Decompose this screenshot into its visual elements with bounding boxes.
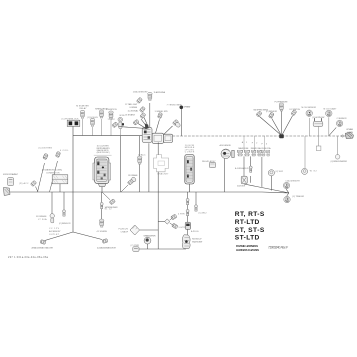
svg-text:12 TAILLIGHT: 12 TAILLIGHT (125, 103, 138, 106)
connector C right diag (329, 118, 347, 136)
hub connector block B3 (164, 134, 173, 142)
svg-text:RELAY: RELAY (80, 107, 88, 110)
connector chain NW (three stacked) (125, 97, 146, 119)
connector M2 (324, 107, 338, 136)
svg-text:C SENSOR: C SENSOR (337, 118, 347, 120)
svg-text:SV BRAKE: SV BRAKE (36, 215, 47, 218)
wire main bus right (dashed harness centerline) (172, 135, 347, 137)
wire stubs bus to fuse row (243, 136, 245, 150)
hub connector block B2 (152, 133, 163, 143)
svg-text:W MAIN: W MAIN (346, 128, 353, 131)
svg-text:CC 12V: CC 12V (49, 228, 60, 230)
bead a (235, 166, 252, 183)
svg-text:(W DIAGNOSTIC LINK): (W DIAGNOSTIC LINK) (42, 168, 62, 171)
svg-text:C ACCESSORY: C ACCESSORY (285, 180, 300, 183)
grey bracket box (154, 155, 170, 176)
svg-text:HARN: HARN (347, 131, 353, 134)
svg-text:(C) TRAILER: (C) TRAILER (292, 195, 304, 198)
svg-text:(C) SENSOR: (C) SENSOR (266, 111, 277, 113)
end blob of bus3 (182, 235, 203, 249)
13 stub above bus2 (121, 174, 138, 192)
svg-text:13 FRAME: 13 FRAME (128, 174, 138, 177)
svg-text:NO/OUI 12V: NO/OUI 12V (192, 238, 202, 240)
svg-text:M STARTER: M STARTER (76, 105, 89, 108)
svg-text:W12V OUTLET: W12V OUTLET (192, 241, 203, 243)
svg-text:RT, RT-S: RT, RT-S (235, 211, 265, 218)
svg-text:(C) SIGNAL: (C) SIGNAL (128, 109, 139, 112)
connector C11 vertical (133, 90, 166, 100)
svg-text:12 ACC: 12 ACC (138, 153, 146, 156)
vertical links (72, 136, 74, 192)
connector C13 (125, 114, 140, 126)
svg-text:ST, ST-S: ST, ST-S (235, 227, 265, 234)
svg-text:A BREAKER: A BREAKER (235, 167, 249, 170)
svg-text:5 WHEEL SPD: 5 WHEEL SPD (155, 111, 168, 113)
connector M oil (302, 107, 317, 136)
svg-text:MAXI FUSE: MAXI FUSE (238, 147, 249, 150)
connector 12V on x139 (138, 153, 146, 164)
connector C-101 (95, 107, 108, 135)
svg-text:297 1 001a-00a-04a-05a-06a: 297 1 001a-00a-04a-05a-06a (8, 256, 49, 259)
svg-text:4 COIL: 4 COIL (60, 150, 69, 152)
splice right small (158, 213, 185, 229)
diode connector X (237, 176, 247, 187)
hub connector block B1 (142, 124, 152, 143)
connector PC top (275, 101, 289, 111)
svg-text:M IGNITION: M IGNITION (106, 109, 117, 111)
svg-text:41 SPARE: 41 SPARE (97, 230, 108, 233)
svg-text:710002/4c Rev. F: 710002/4c Rev. F (268, 246, 289, 250)
x187 chain below bus2 (185, 192, 199, 235)
svg-text:(C) PWR: (C) PWR (131, 245, 140, 247)
CC label block (49, 228, 61, 236)
hub dark connector (279, 134, 284, 138)
x101 chain below bus2 (97, 192, 113, 233)
svg-text:5 HTR: 5 HTR (179, 227, 186, 229)
svg-text:A SADDLEBAG GAUCHE: A SADDLEBAG GAUCHE (32, 246, 54, 249)
svg-text:M FRONT/AVANT: M FRONT/AVANT (3, 173, 19, 176)
svg-text:BRACKET: BRACKET (158, 172, 170, 175)
connector C17 left (108, 118, 119, 128)
fuse group 2 (251, 143, 262, 156)
end connector of harness (342, 128, 354, 138)
svg-text:A SOLENOID: A SOLENOID (220, 144, 232, 147)
svg-text:DC SWITCH: DC SWITCH (290, 109, 301, 111)
svg-text:(C) SPEEDOMETER: (C) SPEEDOMETER (331, 161, 348, 163)
svg-text:A PLUG: A PLUG (191, 230, 199, 233)
svg-text:4 HTR: 4 HTR (178, 213, 185, 215)
svg-text:(C) SADDLEBAG DROIT: (C) SADDLEBAG DROIT (97, 246, 117, 249)
open square terminal below bus (316, 136, 321, 151)
svg-text:RELAY ASSY: RELAY ASSY (202, 160, 216, 163)
connector spark 2-prong (312, 117, 324, 136)
svg-text:CONTR: CONTR (185, 152, 195, 154)
svg-text:13 BRAKE: 13 BRAKE (125, 114, 136, 117)
svg-text:(C) 1357 REG: (C) 1357 REG (39, 148, 53, 150)
node dot antenna (180, 105, 192, 136)
connector C-82 (76, 105, 89, 136)
svg-text:A DIODE: A DIODE (237, 184, 246, 187)
svg-text:(C)SENSOR: (C)SENSOR (59, 223, 71, 225)
connector C-111 (106, 109, 117, 136)
svg-text:PC PRESSURE: PC PRESSURE (275, 101, 289, 103)
connector M4b (266, 111, 277, 118)
svg-text:W SADDLE PWR: W SADDLE PWR (144, 235, 156, 238)
diamond splice left (119, 225, 159, 235)
svg-text:LICENSE: LICENSE (130, 107, 138, 109)
svg-text:12 ACCESSORY: 12 ACCESSORY (133, 90, 149, 93)
terminal strip box (42, 168, 68, 192)
fuse group 3 (262, 143, 272, 156)
svg-text:(MULTIFUNC): (MULTIFUNC) (97, 152, 110, 154)
tensioner stub (102, 192, 118, 209)
svg-text:(C) W12: (C) W12 (275, 171, 283, 173)
svg-text:HARNAIS CHASSIS: HARNAIS CHASSIS (236, 248, 259, 252)
horn component (220, 144, 235, 192)
fuse block F1 (62, 118, 80, 135)
x196 chain (195, 192, 208, 215)
wire fan lines (118, 103, 172, 134)
svg-text:M COOLANT: M COOLANT (324, 107, 338, 110)
small relay mid (202, 160, 216, 168)
svg-text:CHAUF: CHAUF (121, 231, 129, 234)
Y branch connectors (283, 180, 300, 193)
svg-text:17 ACC: 17 ACC (108, 118, 116, 121)
V split (32, 192, 117, 249)
svg-text:PLUG 12V: PLUG 12V (119, 229, 129, 231)
x52 ring chain (36, 192, 54, 223)
ring W12 (268, 170, 283, 191)
svg-text:M OIL SENSOR: M OIL SENSOR (302, 107, 317, 109)
svg-text:ACCESSORY: ACCESSORY (49, 230, 61, 233)
left end labels + connector (3, 173, 19, 195)
svg-text:ST-LTD: ST-LTD (235, 235, 260, 242)
dark blob on hub corner (145, 124, 149, 130)
svg-text:CONNECTOR: CONNECTOR (46, 172, 60, 174)
wire lower bus slanted continuation (262, 191, 289, 194)
conn bus3 left end (131, 245, 140, 251)
svg-text:11 ANTENNA: 11 ANTENNA (154, 91, 166, 94)
svg-text:OUTLET: OUTLET (49, 234, 60, 236)
connector DC (290, 109, 301, 116)
svg-text:(C) W12: (C) W12 (199, 213, 208, 215)
svg-text:(R) ACC: (R) ACC (19, 182, 29, 185)
wire main bus left (solid) (73, 135, 142, 137)
wire diagonal collector (244, 184, 289, 193)
svg-text:FUSE 15A: FUSE 15A (262, 147, 272, 150)
fuse group 1 (238, 141, 250, 156)
R stub connector (19, 180, 38, 192)
svg-text:RELAY 30A: RELAY 30A (251, 147, 262, 150)
svg-text:(C) FUSEBLOCK: (C) FUSEBLOCK (62, 118, 80, 120)
svg-text:W 82: W 82 (310, 171, 318, 173)
svg-text:(C) HORN SW: (C) HORN SW (312, 117, 324, 119)
connector M4a (254, 110, 269, 117)
svg-text:(C)SOLEN: (C)SOLEN (87, 117, 98, 119)
svg-text:7 TENSIONER: 7 TENSIONER (167, 105, 182, 107)
wire drops from fuse row (243, 156, 245, 176)
connector C7 (167, 105, 182, 128)
svg-text:RT-LTD: RT-LTD (235, 219, 260, 226)
ring terminal right + label (331, 136, 348, 163)
svg-text:LT 30A: LT 30A (38, 218, 47, 221)
wire bottom bus (139, 248, 186, 250)
circle mid (144, 235, 156, 249)
svg-text:GPS ANT: GPS ANT (184, 105, 192, 108)
connector C5 (155, 111, 168, 119)
W82 ring (302, 136, 318, 174)
wire lower bus (10, 191, 262, 193)
connector C-120 ring (118, 115, 125, 136)
connector C-92 (87, 117, 98, 136)
crossing stub connectors (38, 148, 70, 193)
svg-text:1A TENSIONER: 1A TENSIONER (105, 206, 118, 209)
x64 bead chain (59, 192, 71, 225)
